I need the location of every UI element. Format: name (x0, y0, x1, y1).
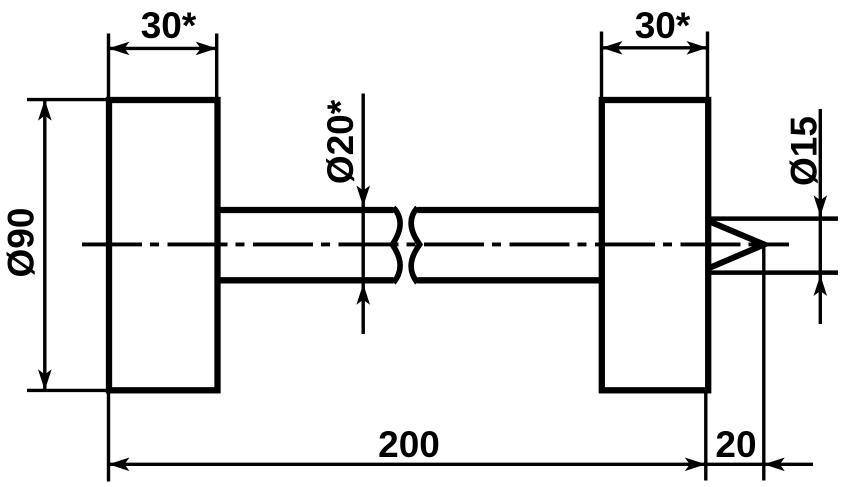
svg-text:Ø90: Ø90 (1, 208, 42, 278)
svg-text:Ø20*: Ø20* (320, 99, 361, 184)
svg-text:Ø15: Ø15 (784, 116, 825, 186)
svg-text:30*: 30* (635, 5, 691, 46)
svg-text:30*: 30* (141, 5, 197, 46)
svg-text:200: 200 (378, 424, 440, 465)
svg-text:20: 20 (715, 424, 756, 465)
